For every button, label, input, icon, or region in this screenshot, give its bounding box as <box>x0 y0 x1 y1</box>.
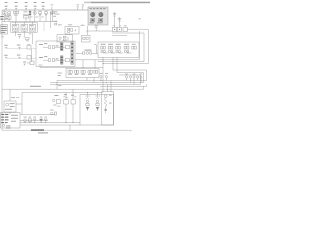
wire right riser1 <box>127 29 148 63</box>
contact set row1 <box>48 45 58 48</box>
diode D2 <box>27 44 31 49</box>
antenna unit AU1 <box>102 92 114 125</box>
resistor R6 <box>95 25 98 31</box>
wire bottom frame border <box>2 130 131 131</box>
relay K1 <box>14 11 19 15</box>
terminal ring E4 <box>129 76 131 83</box>
terminal ring E7 <box>140 74 143 83</box>
terminal ring E1 <box>100 73 103 81</box>
switch S3 <box>51 10 55 22</box>
resistor R4 <box>4 55 7 59</box>
fuse F11 <box>123 25 127 31</box>
control unit U1 <box>36 41 75 66</box>
load box LB1 <box>80 95 114 126</box>
wire right bus2 <box>98 61 144 63</box>
label right small <box>138 17 141 20</box>
box module M3 <box>57 35 73 42</box>
lamp L3 <box>71 89 76 122</box>
wire nested corner3 <box>119 75 141 85</box>
fuse F7 <box>77 4 79 10</box>
label U1 row1 <box>39 43 47 45</box>
wire bottom bus1 <box>20 122 80 124</box>
terminal ring E6 <box>136 76 138 81</box>
wire bus2 <box>2 21 57 23</box>
label title text <box>31 129 48 133</box>
module M1 <box>23 14 28 18</box>
wire riser x57 <box>56 81 58 90</box>
label near riser <box>58 84 61 87</box>
wire lamp row link <box>20 119 48 121</box>
fuse F10 <box>117 25 121 31</box>
fuse F5 <box>42 2 45 10</box>
valve V1 <box>85 92 90 111</box>
wire row1 riser <box>31 49 33 62</box>
wire node B drop <box>9 15 26 22</box>
switch S2 <box>45 10 48 22</box>
diode D8 <box>27 61 34 65</box>
wire right riser3 <box>143 33 145 62</box>
junction dots right buses <box>66 59 107 123</box>
wire right bus1 <box>75 59 140 61</box>
resistor R3 <box>4 45 7 49</box>
label under U1 <box>39 64 43 67</box>
label under CB1 <box>30 16 33 19</box>
connector strip CS1 <box>60 43 63 51</box>
wire eb1 link <box>20 113 55 115</box>
fuse F2 <box>15 2 18 10</box>
resistor R1 <box>18 34 22 38</box>
socket P3 <box>29 22 35 32</box>
wire ground bus1 <box>57 80 147 82</box>
wire au1 feeds <box>108 81 112 92</box>
fuse panel FP1 <box>66 69 99 78</box>
label PD1 bottom <box>90 22 103 23</box>
diode D1 <box>26 37 29 41</box>
relay K3 <box>108 44 115 53</box>
fuse FP1-1 <box>68 70 72 75</box>
label PD1 top row <box>90 8 106 9</box>
wire right riser2 <box>139 31 141 60</box>
relay K6 <box>132 44 137 49</box>
contact set row2 <box>48 58 58 61</box>
fuse F6 <box>51 4 53 10</box>
socket P2 <box>21 22 27 38</box>
capacitor C2 <box>118 17 121 28</box>
terminal ring E2 <box>105 73 108 81</box>
connector block X1 <box>1 25 8 34</box>
junction dots bottom bus <box>25 121 47 124</box>
relay box RB1 <box>98 42 139 58</box>
wire right bus3 <box>103 63 148 65</box>
label U1 row2 <box>39 56 47 58</box>
switch S5 group <box>76 45 98 55</box>
relay K2 <box>101 44 108 53</box>
label above M1 <box>24 10 28 13</box>
junction box JB1 <box>11 23 38 32</box>
power rail thick top-right streak <box>84 2 92 4</box>
connector strip CS3 <box>71 42 74 65</box>
relay K4 <box>116 44 123 53</box>
wire bottom bus2 <box>20 124 80 126</box>
connector strip CS2 <box>60 56 63 64</box>
connector node A <box>3 10 6 22</box>
fuse F9 <box>112 25 116 31</box>
wire bt1 link <box>16 103 22 105</box>
lamp L1 <box>53 95 61 107</box>
wire under PD1 <box>86 30 112 32</box>
terminal box TB1 <box>5 16 11 20</box>
diode D4 <box>28 117 31 122</box>
contact box row2 <box>65 59 69 62</box>
wire M2 feed <box>87 26 89 36</box>
sensor G1 <box>51 11 60 16</box>
wire fp1 drop2 <box>93 78 95 83</box>
valve V2 <box>95 92 100 111</box>
connector node B <box>8 12 11 15</box>
wire top supply bus <box>2 9 88 11</box>
wire nested corner2 <box>117 73 144 83</box>
fuse FP1-2 <box>75 70 79 75</box>
wire left frame border <box>1 10 3 130</box>
capacitor C1 <box>113 12 116 28</box>
label left margin 3 <box>1 35 4 38</box>
transformer T2 <box>99 13 103 22</box>
breaker CB1 <box>29 10 31 22</box>
socket P1 <box>13 22 19 36</box>
terminal ring E3 <box>125 74 128 81</box>
label mid 1 <box>54 21 62 26</box>
resistor R2 <box>17 45 21 50</box>
wire fp1 risers <box>83 60 95 69</box>
wire left main riser <box>102 58 104 92</box>
wire ground bus2 <box>50 82 144 84</box>
wire bt1 feed <box>9 89 11 114</box>
ground corner mark <box>7 126 10 129</box>
wire row1 inner <box>43 46 65 48</box>
wire center drop <box>32 33 34 44</box>
wire right link2 <box>112 35 127 37</box>
wire feed B riser <box>21 92 23 114</box>
diode D7 <box>44 117 47 122</box>
wire left feed <box>50 12 52 28</box>
label right of M2 <box>81 24 85 27</box>
wire nested stub1 <box>113 58 117 73</box>
power distribution box PD1 <box>88 7 108 25</box>
wire right link1 <box>112 32 144 34</box>
wire row1 <box>7 48 36 50</box>
label under B1 <box>36 16 39 19</box>
wire bus2 end tick <box>44 22 57 31</box>
terminal ring E5 <box>133 74 136 85</box>
fuse F3 <box>25 2 28 10</box>
label above M2 <box>68 23 72 26</box>
fuse F8 <box>82 4 84 10</box>
diode D3 <box>27 56 31 60</box>
switch S1 <box>39 10 42 22</box>
wire bottom feed B <box>22 91 103 93</box>
fuse FP1-3 <box>81 70 85 75</box>
label fp left <box>58 73 62 76</box>
terminal ring E8 <box>24 117 27 122</box>
battery module BT1 <box>4 101 16 112</box>
label under S1 <box>41 16 44 19</box>
relay K5 <box>124 44 131 53</box>
fuse FP1-5 <box>94 70 98 73</box>
box module M4 <box>82 35 91 42</box>
resistor R5 <box>17 55 21 59</box>
motor B1 <box>33 10 36 22</box>
wire fp1 feed <box>40 66 103 67</box>
wire row2 inner <box>43 59 65 61</box>
wire bottom feed A <box>2 87 144 90</box>
fuse FP1-4 <box>88 70 92 75</box>
contact box row1 <box>65 45 69 48</box>
wire bus drop tick <box>69 125 71 130</box>
engine block EB1 <box>1 113 20 129</box>
junction dot riser <box>56 83 59 86</box>
diode D6 <box>40 117 43 122</box>
label left margin 2 <box>0 19 3 20</box>
label above BT1 <box>11 96 19 99</box>
wire nested corner1 <box>113 70 147 81</box>
label left margin 1 <box>0 16 3 17</box>
wire fp1 drop1 <box>86 78 88 81</box>
label above D1 <box>29 32 32 35</box>
box module M2 <box>65 26 79 34</box>
sensor G2 <box>50 110 56 115</box>
diode D5 <box>33 117 36 122</box>
resistor R7 <box>23 62 26 66</box>
fuse F1 <box>5 2 8 10</box>
wire right bus y86 <box>100 84 147 86</box>
label feed A <box>30 86 41 87</box>
wire row2 <box>7 57 36 59</box>
transformer T1 <box>91 13 95 22</box>
lamp L2 <box>63 92 68 122</box>
wire ground bus3 <box>50 84 141 86</box>
fuse F4 <box>34 2 37 10</box>
